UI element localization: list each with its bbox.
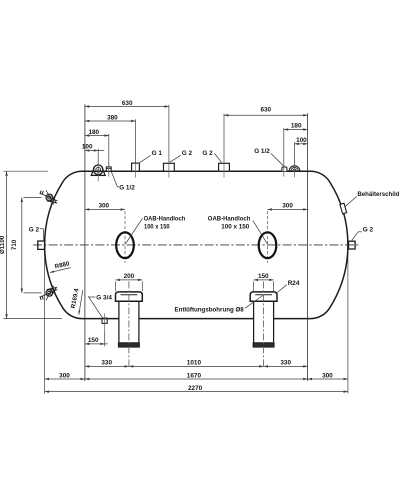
- lifting lug right: [289, 166, 300, 171]
- svg-text:100: 100: [296, 137, 307, 144]
- centerline vessel axis: [33, 244, 359, 246]
- svg-text:G 2: G 2: [202, 150, 213, 157]
- dimension 300 right handhole: [268, 208, 308, 210]
- extension line right head tip: [347, 252, 349, 394]
- dimension 150 right leg: [254, 279, 274, 281]
- svg-text:Entlüftungsbohrung Ø8: Entlüftungsbohrung Ø8: [175, 306, 245, 313]
- handhole left: [116, 232, 134, 258]
- nozzle G2 right head: [349, 241, 356, 249]
- svg-text:710: 710: [11, 239, 18, 250]
- svg-text:2270: 2270: [188, 385, 203, 392]
- dimension 1010 bottom: [129, 365, 264, 367]
- svg-text:G 3/4: G 3/4: [96, 295, 112, 302]
- dimension 150 drain: [85, 343, 108, 345]
- dimension 630 top-left: [85, 105, 169, 107]
- extension line G1/2 left nozzle: [108, 134, 110, 167]
- svg-text:OAB-Handloch: OAB-Handloch: [144, 215, 186, 222]
- angled nozzle top-left head: [40, 193, 57, 201]
- svg-text:180: 180: [291, 123, 302, 130]
- centerline G1 nozzle: [135, 164, 137, 178]
- dimension 300 bottom-right: [308, 378, 348, 380]
- svg-text:200: 200: [124, 273, 135, 280]
- svg-text:100: 100: [82, 144, 93, 151]
- svg-text:1010: 1010: [187, 360, 202, 367]
- nozzle G2 a: [164, 163, 175, 171]
- svg-text:150: 150: [258, 273, 269, 280]
- dimension 100 top-right: [295, 143, 308, 145]
- extension line left head tip: [44, 252, 46, 394]
- svg-text:1670: 1670: [187, 372, 202, 379]
- dimension 330 bottom-right: [264, 365, 308, 367]
- svg-text:OAB-Handloch: OAB-Handloch: [208, 215, 251, 222]
- vessel right dished head: [308, 171, 348, 318]
- dimension 380 top-left: [85, 120, 136, 122]
- svg-text:300: 300: [59, 372, 70, 379]
- left seam and extension line: [84, 104, 86, 381]
- handhole right: [259, 232, 277, 258]
- svg-text:100 x 150: 100 x 150: [221, 224, 249, 231]
- svg-text:630: 630: [260, 107, 271, 114]
- extension line G2 nozzle b: [223, 114, 225, 163]
- extension line G2 nozzle a: [168, 105, 170, 163]
- extension line drain fitting: [104, 330, 106, 346]
- svg-text:G 2: G 2: [182, 150, 193, 157]
- nozzle G1/2 right: [282, 167, 287, 171]
- extension line top-left nozzle: [24, 197, 42, 199]
- extension line G1 nozzle: [135, 119, 137, 163]
- centerline G1/2 right nozzle: [283, 163, 285, 177]
- nozzle G1: [132, 163, 140, 171]
- svg-text:180: 180: [88, 129, 99, 136]
- svg-text:G 1: G 1: [152, 150, 163, 157]
- extension lines right leg pipe: [253, 281, 255, 291]
- extension line tank bottom left: [3, 318, 62, 320]
- svg-text:150: 150: [88, 337, 99, 344]
- centerline G2 nozzle a: [168, 164, 170, 178]
- extension line G1/2 right nozzle: [283, 128, 285, 167]
- svg-text:Behälterschild: Behälterschild: [357, 191, 399, 198]
- dimension 630 top-right: [224, 114, 308, 116]
- extension line tank top left: [3, 170, 48, 172]
- centerline G2 nozzle b: [223, 164, 225, 178]
- extension line bottom-left nozzle: [24, 292, 42, 294]
- dimension 180 top-right: [284, 129, 308, 131]
- dimension 1670 bottom: [85, 378, 308, 380]
- svg-text:300: 300: [282, 203, 293, 210]
- svg-text:330: 330: [280, 360, 291, 367]
- dimension 2270 bottom: [45, 391, 348, 393]
- centerline left handhole: [124, 211, 126, 263]
- dimension 100 top-left: [85, 149, 104, 151]
- extension lines left leg cap: [115, 281, 117, 291]
- right support leg: [254, 301, 274, 343]
- centerline right handhole: [267, 211, 269, 263]
- svg-text:330: 330: [101, 360, 112, 367]
- dimension 300 left handhole: [85, 208, 125, 210]
- dimension 300 bottom-left: [45, 378, 85, 380]
- centerline right lug: [294, 163, 296, 177]
- dimension 180 top-left: [85, 135, 109, 137]
- centerline left leg: [128, 281, 130, 368]
- centerline drain fitting: [104, 313, 106, 330]
- extension line left lug: [97, 149, 99, 165]
- nozzle G2 b: [219, 163, 230, 171]
- lifting lug left: [91, 166, 105, 175]
- vessel shell bottom line: [85, 318, 308, 320]
- svg-text:R24: R24: [288, 280, 300, 287]
- dimension line 710: [21, 198, 23, 293]
- extension line right lug: [294, 142, 296, 166]
- svg-text:G 2: G 2: [29, 226, 40, 233]
- nozzle G2 left head: [38, 241, 45, 249]
- svg-text:630: 630: [122, 100, 133, 107]
- dimension line Phi1100: [6, 172, 8, 319]
- vessel left dished head: [45, 171, 85, 318]
- right seam and extension line: [307, 113, 309, 381]
- svg-text:100 x 150: 100 x 150: [144, 224, 170, 231]
- svg-text:300: 300: [98, 203, 109, 210]
- centerline G1/2 left nozzle: [108, 164, 110, 176]
- left support leg: [119, 301, 139, 343]
- svg-text:380: 380: [107, 114, 118, 121]
- dimension 330 bottom-left: [85, 365, 129, 367]
- centerline left lug: [97, 161, 99, 182]
- svg-text:Ø1100: Ø1100: [0, 235, 6, 254]
- dimension 200 left leg: [116, 279, 143, 281]
- svg-text:G 1/2: G 1/2: [254, 148, 270, 155]
- nameplate Behaelterschild: [340, 203, 347, 214]
- svg-text:G 2: G 2: [363, 226, 374, 233]
- drain fitting G3/4: [102, 318, 107, 323]
- svg-text:300: 300: [322, 372, 333, 379]
- nozzle G1/2 left: [106, 167, 111, 171]
- vessel shell top line: [85, 170, 308, 172]
- svg-text:G 1/2: G 1/2: [119, 184, 135, 191]
- angled nozzle bottom-left head: [40, 290, 57, 298]
- centerline right leg: [263, 281, 265, 368]
